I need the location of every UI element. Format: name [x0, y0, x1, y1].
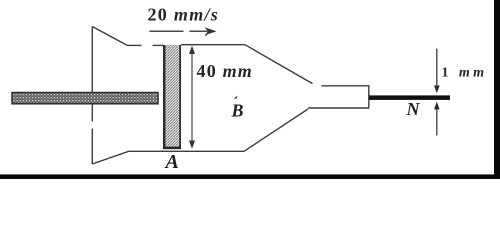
svg-text:1 mm: 1 mm: [442, 66, 488, 81]
wire: small scan tick under arrowhead: [205, 34, 208, 36]
wire: nozzle hub bottom: [308, 107, 369, 109]
wire: piston rod (stippled): [12, 93, 158, 104]
dimension arrow 1 mm lower (points up at needle): [434, 102, 440, 136]
dimension arrow 1 mm upper (points down at needle): [434, 49, 440, 94]
needle jet at nozzle N (thick black line): [369, 95, 450, 100]
wire: cylinder top line left of piston: [127, 44, 142, 46]
wire: nozzle hub top: [322, 85, 370, 87]
dimension arrow 40 mm (vertical double-headed): [189, 46, 195, 149]
wire: nozzle hub right edge: [368, 85, 370, 108]
wire: cylinder bottom line: [129, 150, 244, 152]
wire: top converging diagonal: [245, 45, 313, 84]
svg-text:40 mm: 40 mm: [197, 61, 254, 81]
node B (point label with dot): [231, 96, 244, 121]
svg-text:B: B: [231, 101, 244, 121]
wire: funnel bottom diagonal: [92, 151, 129, 164]
svg-text:A: A: [164, 151, 179, 173]
wire: bottom converging diagonal: [244, 109, 308, 151]
wire: cylinder top line right of piston: [181, 44, 245, 46]
piston A (hatched disc): [163, 45, 181, 149]
svg-text:N: N: [406, 99, 421, 119]
border: right black bar: [494, 0, 500, 179]
node flange: syringe rear flange vertical line: [91, 27, 93, 93]
svg-text:20 mm/s: 20 mm/s: [148, 5, 220, 25]
wire: funnel top diagonal: [92, 27, 127, 46]
border: bottom black bar: [0, 174, 500, 179]
velocity arrow (20 mm/s): [150, 27, 217, 35]
